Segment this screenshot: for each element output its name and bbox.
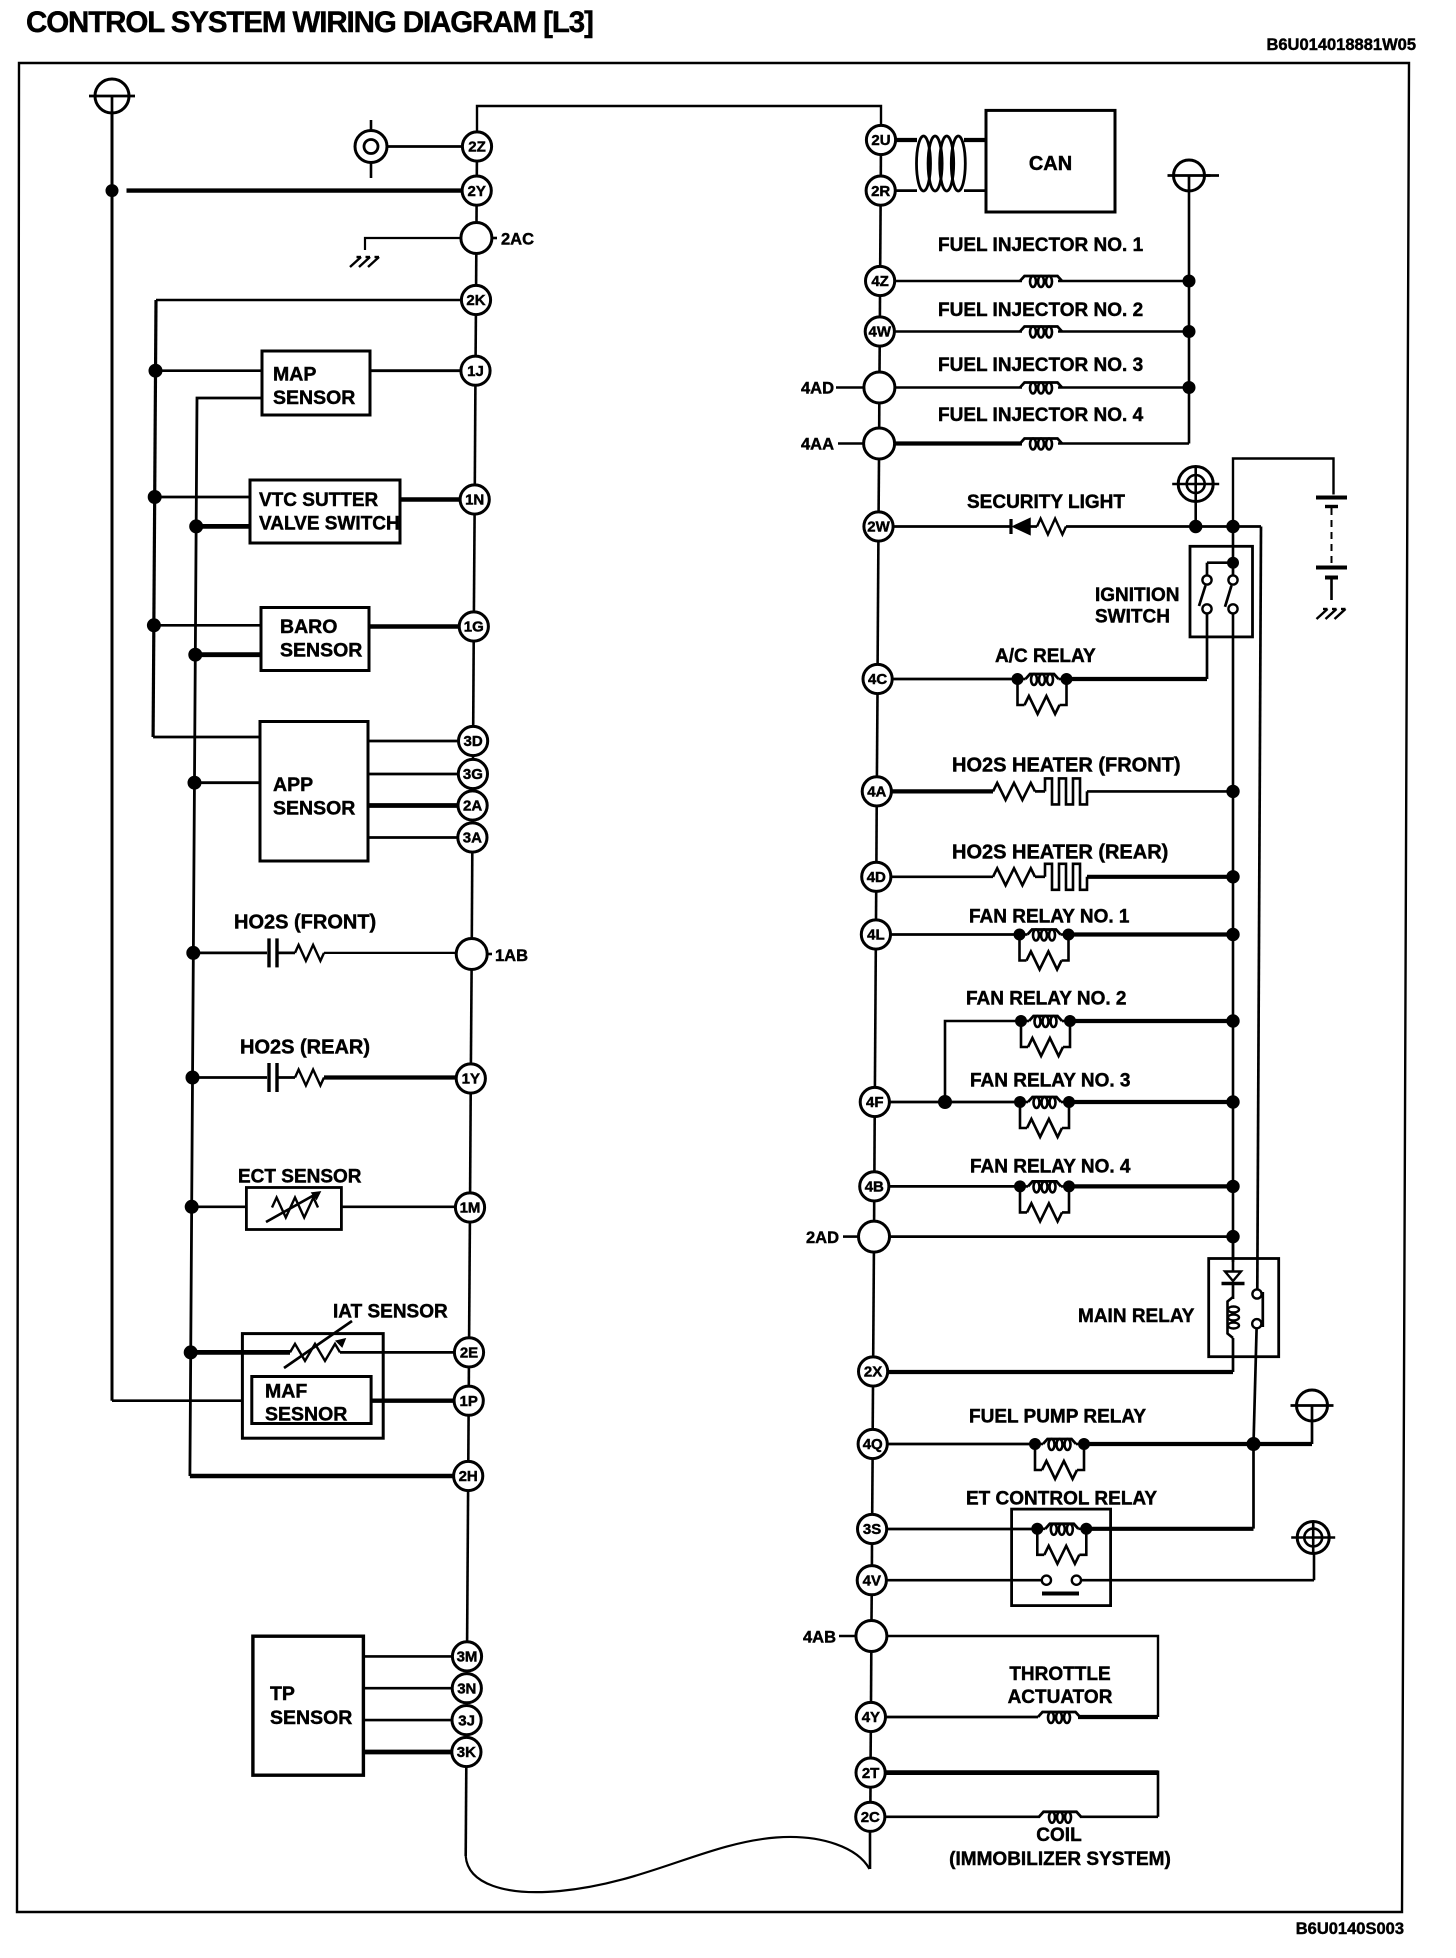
svg-text:TP: TP bbox=[270, 1683, 295, 1705]
svg-text:4F: 4F bbox=[866, 1094, 884, 1111]
svg-text:4C: 4C bbox=[868, 671, 887, 688]
wire: inner bus A vertical bbox=[153, 300, 156, 737]
junction: bus B / HO2S front bbox=[187, 946, 200, 959]
contact bbox=[1202, 604, 1211, 613]
coil immobilizer loop bbox=[885, 1770, 1158, 1775]
contact bbox=[1228, 604, 1237, 613]
svg-text:2T: 2T bbox=[862, 1765, 880, 1782]
wire: APP to 3D bbox=[368, 740, 459, 743]
APP sensor box bbox=[260, 722, 368, 862]
CAN twisted pair bbox=[896, 138, 917, 142]
wire: 2K to inner bus bbox=[156, 299, 461, 302]
tick 4AA bbox=[838, 442, 864, 445]
wire: TP to 3M bbox=[363, 1655, 452, 1658]
contact bbox=[1228, 575, 1237, 584]
svg-text:3N: 3N bbox=[457, 1680, 476, 1697]
throttle actuator loop bbox=[887, 1636, 1158, 1717]
svg-text:2C: 2C bbox=[861, 1809, 880, 1826]
node 4D bbox=[862, 862, 891, 891]
svg-text:2AC: 2AC bbox=[501, 231, 534, 249]
svg-text:COIL: COIL bbox=[1036, 1825, 1082, 1846]
svg-text:MAF: MAF bbox=[265, 1381, 307, 1403]
svg-text:HO2S (FRONT): HO2S (FRONT) bbox=[234, 912, 376, 934]
svg-text:MAIN RELAY: MAIN RELAY bbox=[1078, 1306, 1195, 1327]
svg-text:4AA: 4AA bbox=[801, 436, 834, 454]
MAF sensor box bbox=[252, 1377, 371, 1424]
switch blade right bbox=[1225, 586, 1232, 607]
junction: bus A / MAP bbox=[149, 364, 162, 377]
node 4B bbox=[860, 1172, 889, 1201]
svg-text:4A: 4A bbox=[867, 784, 886, 801]
junction: power bus y=791.4 bbox=[1227, 785, 1239, 797]
switch blade left bbox=[1199, 586, 1206, 607]
HO2S heater front bbox=[891, 789, 993, 793]
battery bbox=[1316, 498, 1347, 601]
wire: down to ET control relay bbox=[1252, 1444, 1255, 1529]
node 2E bbox=[454, 1338, 483, 1367]
fan relay no.1 bbox=[891, 933, 1020, 936]
wire: MAP lower to inner bus B bbox=[190, 398, 262, 1476]
junction: bus A / VTC bbox=[148, 491, 161, 504]
svg-text:2X: 2X bbox=[864, 1364, 882, 1381]
svg-text:4W: 4W bbox=[869, 324, 892, 341]
svg-text:2A: 2A bbox=[463, 798, 482, 815]
node 3G bbox=[458, 759, 487, 788]
svg-text:SENSOR: SENSOR bbox=[273, 798, 355, 820]
junction: power bus y=1021 bbox=[1227, 1015, 1239, 1027]
wire: bus B to IAT (thick) bbox=[191, 1350, 290, 1355]
junction: injector bus bbox=[1183, 326, 1195, 338]
svg-text:1M: 1M bbox=[460, 1200, 481, 1217]
wire: BARO to 1G (thick) bbox=[369, 624, 459, 628]
node 1P bbox=[454, 1386, 483, 1415]
node 2Z bbox=[462, 132, 491, 161]
svg-text:ECT SENSOR: ECT SENSOR bbox=[238, 1167, 362, 1188]
svg-text:SENSOR: SENSOR bbox=[280, 640, 362, 662]
svg-text:4L: 4L bbox=[867, 927, 885, 944]
wire: inner bus B corner to 2H (thick) bbox=[190, 1474, 454, 1478]
wire: ignition bus up to battery bbox=[1233, 459, 1334, 527]
svg-text:SECURITY LIGHT: SECURITY LIGHT bbox=[967, 492, 1125, 513]
svg-text:ET CONTROL RELAY: ET CONTROL RELAY bbox=[966, 1489, 1157, 1510]
wire: bus B to APP sensor bbox=[195, 781, 261, 784]
svg-text:4B: 4B bbox=[865, 1179, 884, 1196]
security light wire + diode + resistor bbox=[893, 525, 1011, 528]
svg-text:IGNITION: IGNITION bbox=[1095, 585, 1179, 606]
throttle actuator coil bbox=[886, 1716, 1039, 1719]
A/C relay coil bbox=[1012, 674, 1023, 685]
svg-text:BARO: BARO bbox=[280, 616, 337, 638]
BARO sensor box bbox=[261, 608, 369, 671]
wire: bottom S-curve from 3K bus to 2C bus bbox=[466, 1837, 870, 1892]
fuel injector no.3 coil bbox=[895, 386, 1022, 388]
svg-text:2Z: 2Z bbox=[468, 139, 486, 156]
ET control relay contacts bbox=[886, 1579, 1041, 1582]
svg-text:2Y: 2Y bbox=[468, 183, 486, 200]
wire: bus A to BARO sensor bbox=[154, 624, 261, 627]
node 3S bbox=[858, 1514, 887, 1543]
wire: MAP to 1J bbox=[370, 369, 461, 372]
node 4Y bbox=[856, 1702, 885, 1731]
node 2AC bbox=[461, 223, 492, 254]
wire: injector supply bus bbox=[1188, 191, 1191, 444]
svg-text:1N: 1N bbox=[465, 492, 484, 509]
svg-text:FUEL INJECTOR NO. 3: FUEL INJECTOR NO. 3 bbox=[938, 355, 1143, 376]
node 2U bbox=[866, 125, 895, 154]
ET control relay coil bbox=[887, 1528, 1037, 1531]
node 2T bbox=[856, 1758, 885, 1787]
svg-text:2K: 2K bbox=[466, 292, 485, 309]
svg-text:2U: 2U bbox=[871, 132, 890, 149]
power symbol B+ at injectors bbox=[1168, 160, 1211, 191]
junction at 2Y wire bbox=[106, 185, 118, 197]
svg-text:(IMMOBILIZER SYSTEM): (IMMOBILIZER SYSTEM) bbox=[949, 1849, 1171, 1870]
wire: APP to 2A (thick) bbox=[368, 803, 458, 808]
wire: B+ to 2Y (thick) bbox=[127, 188, 463, 192]
node 4AA bbox=[864, 428, 895, 459]
HO2S front sensor (capacitor + resistor) bbox=[193, 952, 267, 955]
svg-text:FUEL INJECTOR NO. 1: FUEL INJECTOR NO. 1 bbox=[938, 235, 1144, 256]
svg-text:2H: 2H bbox=[459, 1468, 478, 1485]
svg-text:4D: 4D bbox=[867, 869, 886, 886]
connector ring at 2Z wire bbox=[355, 120, 387, 178]
main relay box bbox=[1209, 1259, 1279, 1357]
svg-text:2W: 2W bbox=[867, 519, 890, 536]
svg-text:B6U0140S003: B6U0140S003 bbox=[1296, 1920, 1404, 1938]
wire: TP to 3N bbox=[363, 1687, 452, 1690]
tick to 2AC label bbox=[492, 237, 497, 240]
IAT sensor box bbox=[242, 1334, 383, 1439]
svg-text:1G: 1G bbox=[464, 619, 484, 636]
body ground at ET relay bbox=[1291, 1522, 1335, 1554]
svg-text:4Q: 4Q bbox=[863, 1436, 883, 1453]
node 4F bbox=[860, 1087, 889, 1116]
tick 2AD bbox=[843, 1235, 859, 1238]
node 2AD bbox=[859, 1221, 890, 1252]
node 2X bbox=[859, 1357, 888, 1386]
fan relay no.4 bbox=[889, 1185, 1020, 1188]
fuel injector no.4 coil bbox=[895, 441, 1022, 445]
node 2H bbox=[454, 1461, 483, 1490]
wire: power symbol to fuel pump wire bbox=[1311, 1421, 1314, 1444]
svg-text:1AB: 1AB bbox=[495, 947, 528, 965]
svg-text:FUEL INJECTOR NO. 2: FUEL INJECTOR NO. 2 bbox=[938, 300, 1143, 321]
svg-text:CAN: CAN bbox=[1029, 153, 1072, 175]
HO2S heater rear bbox=[891, 875, 993, 878]
svg-text:4AB: 4AB bbox=[803, 1629, 836, 1647]
node 3M bbox=[452, 1642, 481, 1671]
svg-text:ACTUATOR: ACTUATOR bbox=[1008, 1687, 1113, 1708]
svg-text:3A: 3A bbox=[463, 830, 482, 847]
junction: injector bus bbox=[1183, 382, 1195, 394]
svg-text:HO2S (REAR): HO2S (REAR) bbox=[240, 1037, 370, 1059]
wire: VTC to 1N (thick) bbox=[400, 497, 460, 501]
node 1M bbox=[455, 1193, 484, 1222]
junction: injector bus bbox=[1183, 275, 1195, 287]
body ground above security light bbox=[1172, 467, 1219, 502]
wire: ET relay to ground bbox=[1081, 1579, 1314, 1582]
node 4C bbox=[863, 664, 892, 693]
svg-text:MAP: MAP bbox=[273, 364, 316, 386]
svg-text:FAN RELAY NO. 2: FAN RELAY NO. 2 bbox=[966, 989, 1127, 1010]
svg-text:FUEL INJECTOR NO. 4: FUEL INJECTOR NO. 4 bbox=[938, 405, 1144, 426]
junction: bus B / BARO bbox=[189, 648, 202, 661]
fuel pump relay bbox=[887, 1443, 1035, 1446]
wire: left main bus bbox=[475, 161, 478, 176]
node 1G bbox=[459, 612, 488, 641]
wire: 2X to main relay (thick) bbox=[888, 1370, 1233, 1374]
wire: bus A to MAP sensor bbox=[156, 369, 263, 372]
fuel injector no.1 coil bbox=[895, 280, 1022, 282]
junction: bus B / APP bbox=[188, 776, 201, 789]
wire: 2AC to chassis ground bbox=[365, 238, 461, 250]
svg-text:HO2S HEATER (REAR): HO2S HEATER (REAR) bbox=[952, 842, 1168, 864]
svg-text:CONTROL SYSTEM WIRING DIAGRAM: CONTROL SYSTEM WIRING DIAGRAM [L3] bbox=[26, 6, 593, 39]
svg-text:4V: 4V bbox=[863, 1572, 881, 1589]
CAN box bbox=[986, 110, 1115, 212]
power symbol B+ top-left bbox=[89, 79, 135, 113]
contact bbox=[1252, 1319, 1261, 1328]
svg-text:3K: 3K bbox=[457, 1744, 476, 1761]
ET control relay box bbox=[1012, 1509, 1111, 1606]
wire: IAT to 2E bbox=[340, 1351, 454, 1354]
wire: inner bus A corner to APP sensor bbox=[153, 736, 260, 739]
node 4V bbox=[857, 1566, 886, 1595]
junction: ground symbol / 2W wire bbox=[1190, 520, 1202, 532]
wire: bus B to BARO (thick) bbox=[195, 652, 261, 657]
tick to 1AB label bbox=[487, 953, 492, 956]
wire: MAF to 1P (thick) bbox=[371, 1398, 454, 1402]
svg-text:B6U014018881W05: B6U014018881W05 bbox=[1266, 36, 1416, 54]
node 4Q bbox=[858, 1429, 887, 1458]
svg-text:SESNOR: SESNOR bbox=[265, 1404, 347, 1426]
wire: main relay switch to fuel pump junction bbox=[1254, 1328, 1257, 1444]
tick 4AB bbox=[839, 1635, 856, 1638]
svg-text:3J: 3J bbox=[458, 1712, 475, 1729]
junction: bus B / IAT bbox=[184, 1346, 197, 1359]
wire: below 2C bbox=[869, 1832, 872, 1869]
junction: fan relay 2 branch bbox=[939, 1096, 952, 1109]
node 2Y bbox=[462, 176, 491, 205]
fuel injector no.2 coil bbox=[894, 330, 1022, 332]
node 2W bbox=[864, 512, 893, 541]
junction: fuel pump / relay bus bbox=[1247, 1438, 1260, 1451]
svg-text:SENSOR: SENSOR bbox=[273, 387, 355, 409]
node 1Y bbox=[456, 1064, 485, 1093]
immobilizer coil bbox=[1039, 1812, 1081, 1817]
wire: APP to 3G bbox=[368, 773, 458, 776]
junction: power bus y=1186.4 bbox=[1227, 1180, 1239, 1192]
svg-text:IAT SENSOR: IAT SENSOR bbox=[333, 1302, 448, 1323]
ECT sensor box (thermistor) bbox=[246, 1188, 341, 1230]
node 4AD bbox=[864, 372, 895, 403]
wire: bus B to ECT bbox=[192, 1205, 247, 1208]
wire: accessory line from 2W to main relay switch bbox=[1257, 527, 1261, 1290]
switch blade (closed) bbox=[1261, 1292, 1264, 1327]
node 2A bbox=[458, 791, 487, 820]
node 3J bbox=[452, 1706, 481, 1735]
wire: TP to 3J bbox=[363, 1719, 452, 1722]
wire: 2Z up over to 2U bbox=[477, 106, 881, 132]
main relay diode + coil branch bbox=[1232, 1237, 1235, 1271]
wire: ECT to 1M bbox=[342, 1205, 456, 1208]
svg-text:VALVE SWITCH: VALVE SWITCH bbox=[259, 514, 400, 535]
power symbol B+ at fuel pump bbox=[1291, 1390, 1334, 1421]
TP sensor box bbox=[253, 1636, 364, 1775]
chassis ground at 2AC bbox=[350, 257, 361, 267]
tick 4AD bbox=[836, 386, 864, 389]
svg-text:THROTTLE: THROTTLE bbox=[1009, 1664, 1110, 1685]
node 3N bbox=[452, 1674, 481, 1703]
contact bbox=[1202, 575, 1211, 584]
wire: 2C to coil bbox=[885, 1815, 1040, 1818]
junction: ignition bus / 2W wire bbox=[1227, 520, 1239, 532]
node 3K bbox=[452, 1737, 481, 1766]
fan relay no.3 bbox=[889, 1101, 1019, 1104]
wire: 2AD to power bus bbox=[890, 1235, 1234, 1238]
svg-text:VTC SUTTER: VTC SUTTER bbox=[259, 490, 379, 511]
svg-text:A/C RELAY: A/C RELAY bbox=[995, 646, 1096, 667]
wire: TP to 3K (thick) bbox=[363, 1750, 451, 1755]
node 1J bbox=[461, 356, 490, 385]
node 2R bbox=[866, 176, 895, 205]
VTC sutter valve switch box bbox=[250, 480, 400, 543]
junction: power bus y=1102 bbox=[1227, 1096, 1239, 1108]
junction: bus B / ECT bbox=[185, 1200, 198, 1213]
junction: bus A / BARO bbox=[147, 619, 160, 632]
node 3D bbox=[459, 726, 488, 755]
svg-text:4Y: 4Y bbox=[862, 1709, 880, 1726]
contact bbox=[1252, 1289, 1261, 1298]
A/C relay bbox=[892, 678, 1018, 681]
svg-text:3D: 3D bbox=[464, 733, 483, 750]
svg-text:1P: 1P bbox=[460, 1393, 478, 1410]
wire: ring to 2Z bbox=[387, 145, 462, 148]
svg-text:2AD: 2AD bbox=[806, 1229, 839, 1247]
node 4L bbox=[861, 920, 890, 949]
chassis ground below battery bbox=[1317, 609, 1328, 619]
svg-text:FAN RELAY NO. 4: FAN RELAY NO. 4 bbox=[970, 1157, 1131, 1178]
fan relay no.2 bbox=[945, 1021, 1021, 1102]
junction: bus B / VTC bbox=[190, 520, 203, 533]
wire: left B+ bus down to MAF bbox=[111, 113, 114, 1401]
wire: bus A to VTC switch bbox=[155, 496, 250, 499]
wire: right main bus bbox=[879, 155, 882, 176]
svg-text:1J: 1J bbox=[467, 363, 484, 380]
wire: ground symbol stem bbox=[1194, 502, 1197, 527]
wire: ignition power bus down bbox=[1232, 614, 1235, 1263]
junction: power bus y=876.8 bbox=[1227, 871, 1239, 883]
svg-text:4AD: 4AD bbox=[801, 380, 834, 398]
node 2C bbox=[856, 1802, 885, 1831]
svg-text:1Y: 1Y bbox=[462, 1071, 480, 1088]
node 2K bbox=[461, 285, 490, 314]
node 1AB bbox=[456, 939, 487, 970]
svg-text:2E: 2E bbox=[460, 1345, 478, 1362]
svg-text:FUEL PUMP RELAY: FUEL PUMP RELAY bbox=[969, 1407, 1146, 1428]
junction: power bus y=934.5 bbox=[1227, 928, 1239, 940]
node 1N bbox=[460, 485, 489, 514]
IAT thermistor bbox=[290, 1344, 340, 1361]
svg-text:HO2S HEATER (FRONT): HO2S HEATER (FRONT) bbox=[952, 755, 1181, 777]
node 4Z bbox=[866, 266, 895, 295]
junction: power bus y=1236.6 bbox=[1227, 1230, 1239, 1242]
junction inside ignition switch bbox=[1228, 557, 1239, 568]
MAP sensor box bbox=[262, 351, 370, 415]
node 4W bbox=[865, 317, 894, 346]
svg-text:3M: 3M bbox=[457, 1649, 478, 1666]
junction: bus B / HO2S rear bbox=[186, 1071, 199, 1084]
svg-text:FAN RELAY NO. 3: FAN RELAY NO. 3 bbox=[970, 1071, 1131, 1092]
wire: bus B to VTC switch (thick) bbox=[196, 524, 250, 529]
svg-text:SENSOR: SENSOR bbox=[270, 1707, 352, 1729]
node 3A bbox=[458, 823, 487, 852]
svg-text:APP: APP bbox=[273, 774, 313, 796]
svg-text:4Z: 4Z bbox=[871, 273, 889, 290]
svg-text:3S: 3S bbox=[863, 1521, 881, 1538]
ignition switch internals bbox=[1232, 527, 1235, 563]
svg-text:FAN RELAY NO. 1: FAN RELAY NO. 1 bbox=[969, 907, 1130, 928]
svg-text:SWITCH: SWITCH bbox=[1095, 607, 1170, 628]
contact bar bbox=[1042, 1592, 1079, 1596]
contact bbox=[1042, 1576, 1051, 1585]
HO2S rear sensor (capacitor + resistor) bbox=[193, 1076, 268, 1079]
wire: APP to 3A bbox=[368, 836, 458, 839]
svg-text:2R: 2R bbox=[871, 183, 890, 200]
svg-text:3G: 3G bbox=[463, 766, 483, 783]
node 4AB bbox=[856, 1621, 887, 1652]
node 4A bbox=[862, 777, 891, 806]
contact bbox=[1072, 1576, 1081, 1585]
wire: ignition to A/C relay bbox=[1206, 614, 1209, 680]
wire: B+ bus corner to MAF sensor box bbox=[112, 1399, 242, 1402]
ignition switch box bbox=[1190, 546, 1253, 637]
